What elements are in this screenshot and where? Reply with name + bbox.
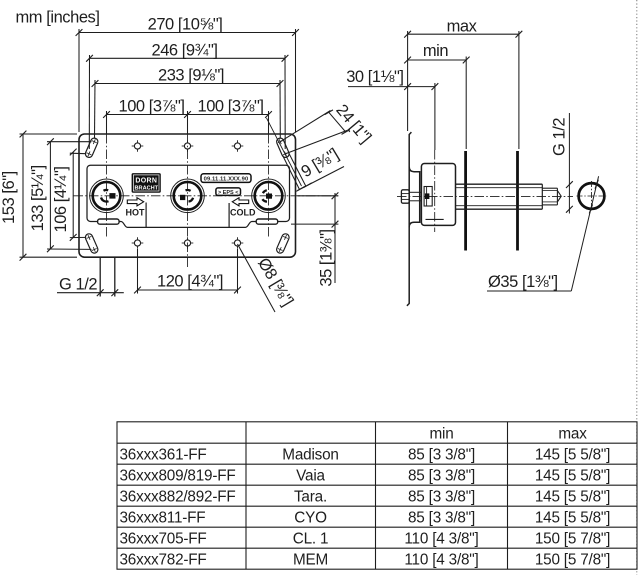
- dim 246 line: [90, 57, 286, 59]
- ext min right: [465, 57, 467, 150]
- wall line max: [516, 151, 519, 251]
- svg-text:Vaia: Vaia: [296, 467, 325, 484]
- dim min line: [408, 59, 467, 61]
- shaft: [456, 184, 562, 209]
- svg-text:35 [1⅜"]: 35 [1⅜"]: [318, 229, 336, 286]
- svg-text:CYO: CYO: [294, 509, 327, 526]
- svg-text:MEM: MEM: [293, 551, 328, 568]
- bracket channel: [409, 167, 420, 227]
- dim 270 ext left: [78, 29, 80, 132]
- svg-text:246 [9¾"]: 246 [9¾"]: [151, 41, 217, 59]
- nut: [401, 190, 409, 203]
- svg-text:36xxx705-FF: 36xxx705-FF: [120, 530, 207, 547]
- dim 24 line: [329, 112, 346, 132]
- dim 9 ext b: [289, 153, 307, 187]
- dim G12 front line: [57, 292, 124, 294]
- centerline side horizontal: [397, 195, 573, 197]
- circle crosshair h: [577, 195, 607, 197]
- svg-text:> EPS <: > EPS <: [218, 190, 239, 196]
- dim 270 ext right: [295, 29, 297, 132]
- dim 133 ext bottom: [47, 248, 92, 250]
- svg-text:G 1/2: G 1/2: [59, 275, 97, 293]
- valve right square: [266, 194, 272, 199]
- svg-text:36xxx782-FF: 36xxx782-FF: [120, 551, 207, 568]
- svg-text:133 [5¼"]: 133 [5¼"]: [29, 165, 47, 231]
- valve middle outer: [171, 179, 205, 213]
- valve body side: [421, 164, 455, 226]
- dim 246 ext right: [284, 55, 286, 149]
- dim 106 ext top: [70, 152, 86, 155]
- dim 106 line: [72, 152, 74, 237]
- screw holes bottom row: [132, 237, 144, 249]
- table col line 3: [507, 422, 509, 569]
- centerline valve left: [106, 134, 108, 237]
- dim 106 ext bottom: [70, 236, 86, 238]
- circle crosshair v: [591, 181, 593, 211]
- valve left square: [109, 193, 115, 199]
- svg-text:Ø35 [1⅜"]: Ø35 [1⅜"]: [488, 273, 558, 291]
- label article number: [201, 174, 251, 183]
- dim 133 ext top: [47, 141, 92, 143]
- circle dia35: [579, 183, 605, 209]
- table outline: [117, 422, 637, 569]
- pipe left wall a: [99, 258, 101, 297]
- svg-text:DORN: DORN: [135, 178, 157, 185]
- svg-text:85 [3 3/8"]: 85 [3 3/8"]: [408, 509, 475, 526]
- ext 30 right: [434, 83, 436, 150]
- table col line 2: [375, 422, 377, 569]
- svg-text:Madison: Madison: [282, 446, 338, 463]
- pocket wall right: [228, 203, 230, 227]
- dim 35 ext top: [298, 195, 339, 197]
- svg-text:30 [1⅛"]: 30 [1⅛"]: [346, 68, 403, 86]
- slot TR: [275, 137, 290, 159]
- dim 233 ext left: [94, 80, 97, 138]
- dim 9 line: [298, 167, 345, 191]
- slot TL: [84, 137, 99, 159]
- dim 24 ext b: [286, 130, 348, 154]
- valve left inner: [93, 182, 121, 210]
- stud lines: [409, 191, 421, 193]
- slot BR: [275, 233, 290, 255]
- valve left outer: [90, 179, 124, 213]
- dim 233 ext right: [279, 80, 281, 138]
- svg-text:36xxx809/819-FF: 36xxx809/819-FF: [120, 467, 236, 484]
- svg-text:145 [5 5/8"]: 145 [5 5/8"]: [535, 488, 610, 505]
- pocket wall left: [145, 203, 147, 228]
- svg-text:270 [10⅝"]: 270 [10⅝"]: [148, 16, 223, 34]
- svg-text:min: min: [429, 425, 453, 442]
- centerline valve right: [268, 134, 270, 237]
- dim 153 ext top: [20, 133, 78, 135]
- table row lines: [117, 442, 637, 444]
- dim 120 ext right: [237, 249, 239, 294]
- svg-text:36xxx811-FF: 36xxx811-FF: [120, 509, 206, 526]
- svg-text:110 [4 3/8"]: 110 [4 3/8"]: [404, 551, 478, 568]
- ticks front view: [76, 29, 83, 36]
- dim 120 line: [138, 289, 238, 291]
- centerline horizontal: [74, 195, 339, 197]
- dim 270 line: [79, 32, 296, 34]
- valve middle square: [180, 195, 185, 200]
- bracket sheet: [407, 132, 412, 306]
- svg-text:36xxx882/892-FF: 36xxx882/892-FF: [120, 488, 236, 505]
- arrow cold: [232, 198, 248, 206]
- dim 233 line: [95, 83, 280, 85]
- svg-text:G 1/2: G 1/2: [551, 118, 569, 156]
- dim 100 ext c: [268, 111, 270, 134]
- pipe left wall b: [114, 258, 116, 297]
- centerline side vertical: [434, 150, 436, 232]
- svg-text:Tara.: Tara.: [294, 488, 327, 505]
- svg-text:HOT: HOT: [126, 208, 146, 218]
- dim 153 ext bottom: [20, 256, 78, 258]
- cartridge: [424, 187, 432, 207]
- label EPS: [216, 188, 241, 196]
- svg-text:145 [5 5/8"]: 145 [5 5/8"]: [535, 446, 610, 463]
- svg-text:145 [5 5/8"]: 145 [5 5/8"]: [535, 509, 610, 526]
- dim 100 line right: [188, 114, 269, 116]
- svg-text:COLD: COLD: [230, 208, 256, 218]
- plate outline: [79, 134, 296, 257]
- valve left arc: [101, 190, 109, 202]
- valve middle arc: [186, 190, 194, 201]
- valve right arc: [262, 190, 267, 201]
- arrow hot: [127, 198, 143, 206]
- svg-text:mm [inches]: mm [inches]: [16, 9, 100, 27]
- valve middle inner: [174, 182, 202, 210]
- dim 100 line left: [107, 114, 188, 116]
- ext max right: [518, 31, 520, 149]
- dim 35 ext bottom: [291, 223, 338, 225]
- svg-text:09.11.11.XXX.90: 09.11.11.XXX.90: [204, 176, 249, 182]
- dim 246 ext left: [88, 55, 90, 149]
- svg-text:233 [9⅛"]: 233 [9⅛"]: [158, 67, 224, 85]
- underline dia35: [487, 290, 571, 292]
- svg-text:110 [4 3/8"]: 110 [4 3/8"]: [404, 530, 478, 547]
- svg-text:85 [3 3/8"]: 85 [3 3/8"]: [408, 467, 475, 484]
- slot BL: [84, 233, 99, 255]
- ext bracket face: [407, 31, 409, 131]
- svg-text:150 [5 7/8"]: 150 [5 7/8"]: [535, 551, 610, 568]
- svg-text:max: max: [558, 425, 587, 442]
- dim 30 line: [348, 86, 435, 88]
- svg-text:BRACHT: BRACHT: [134, 186, 158, 192]
- valve right inner: [255, 182, 283, 210]
- dim 9 ext a: [283, 155, 300, 189]
- dim 100 ext a: [106, 111, 108, 134]
- tab left: [98, 219, 120, 224]
- svg-text:85 [3 3/8"]: 85 [3 3/8"]: [408, 488, 475, 505]
- page edge dotted line: [636, 0, 638, 575]
- screw holes top row: [132, 140, 144, 152]
- valve right outer: [252, 179, 286, 213]
- svg-text:min: min: [423, 42, 449, 60]
- body bottom line: [426, 218, 444, 220]
- dim 153 line: [22, 134, 24, 257]
- svg-text:CL. 1: CL. 1: [293, 530, 329, 547]
- leader dia35: [571, 176, 598, 291]
- svg-text:100 [3⅞"]: 100 [3⅞"]: [118, 97, 184, 115]
- svg-text:145 [5 5/8"]: 145 [5 5/8"]: [535, 467, 610, 484]
- leader dia8: [238, 244, 276, 312]
- dim 133 line: [49, 142, 51, 249]
- wall line min: [464, 151, 467, 251]
- dim max line: [408, 33, 519, 35]
- svg-text:100 [3⅞"]: 100 [3⅞"]: [197, 97, 263, 115]
- table col line 1: [245, 422, 247, 569]
- centerline valve middle: [187, 134, 189, 267]
- svg-text:85 [3 3/8"]: 85 [3 3/8"]: [408, 446, 475, 463]
- cartridge square: [425, 193, 430, 199]
- inner contour: [87, 165, 290, 227]
- dim 100 ext b: [187, 111, 189, 134]
- logo dornbracht: [132, 173, 161, 193]
- dim 35 line: [334, 193, 336, 283]
- svg-text:106 [4¼"]: 106 [4¼"]: [52, 166, 70, 232]
- svg-text:150 [5 7/8"]: 150 [5 7/8"]: [535, 530, 610, 547]
- dim 120 ext left: [137, 249, 139, 294]
- svg-text:120 [4¾"]: 120 [4¾"]: [157, 272, 223, 290]
- svg-text:max: max: [447, 17, 478, 35]
- tab right: [256, 219, 278, 224]
- svg-text:36xxx361-FF: 36xxx361-FF: [120, 446, 207, 463]
- svg-text:153 [6"]: 153 [6"]: [0, 171, 18, 224]
- dim G12 side line: [568, 113, 570, 214]
- dim 24 ext a: [280, 111, 330, 142]
